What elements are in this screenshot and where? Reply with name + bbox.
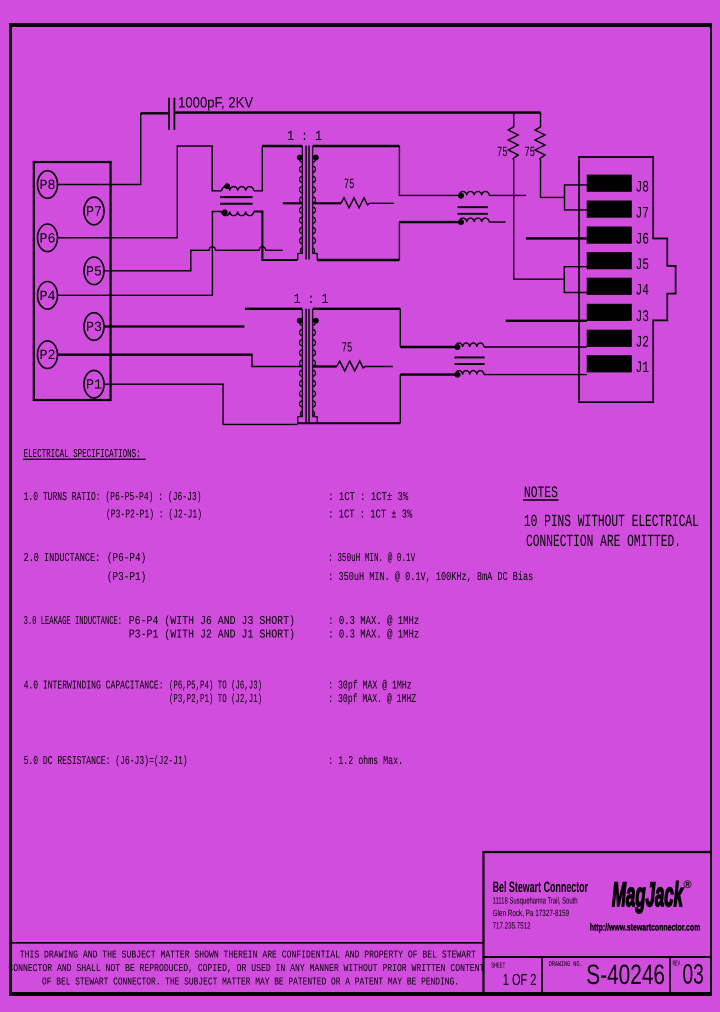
connector P box: [34, 162, 111, 400]
svg-text:1 OF 2: 1 OF 2: [503, 972, 537, 989]
resistor R3 75 vertical: [508, 113, 564, 280]
choke L3 top coil: [456, 343, 484, 347]
choke L2 top coil: [459, 191, 489, 195]
choke L3 top dot: [455, 344, 461, 350]
svg-text:REV.: REV.: [673, 961, 683, 969]
svg-text:: 30pf MAX. @ 1MHZ: : 30pf MAX. @ 1MHZ: [328, 692, 416, 706]
choke L1 top coil: [222, 187, 254, 191]
wire choke L1 bottom out to T1 primary bottom: [254, 212, 298, 261]
T1 secondary bottom wire: [317, 259, 399, 261]
bracket J5 J4: [564, 267, 586, 293]
svg-text:DRAWING NO.: DRAWING NO.: [549, 960, 583, 969]
T1 left winding: [298, 146, 303, 260]
wire capacitor to resistors top rail: [175, 111, 541, 113]
svg-text:MagJack: MagJack: [612, 876, 684, 914]
bracket J8 J7: [565, 185, 587, 210]
svg-text:J2: J2: [636, 334, 650, 352]
svg-text:(P3-P2-P1) : (J2-J1): (P3-P2-P1) : (J2-J1): [106, 508, 202, 522]
choke L2 core: [458, 207, 489, 214]
resistor R1 75 across T1 secondary: [313, 202, 341, 204]
svg-text:(P3-P1): (P3-P1): [107, 570, 146, 584]
svg-text:P5: P5: [86, 264, 102, 280]
svg-text:CONNECTOR AND SHALL NOT BE REP: CONNECTOR AND SHALL NOT BE REPRODUCED, C…: [8, 963, 484, 975]
wire P3 dead end: [104, 325, 245, 327]
resistor R2 75 across T2 secondary: [313, 365, 337, 367]
wire J3 dead end: [506, 320, 587, 322]
svg-text:75: 75: [342, 341, 353, 357]
svg-text:3.0 LEAKAGE INDUCTANCE:: 3.0 LEAKAGE INDUCTANCE:: [24, 614, 123, 628]
wire P6 up to choke L1 top: [58, 146, 222, 238]
T1 secondary top wire: [313, 145, 400, 147]
pin J7: [587, 201, 632, 218]
svg-text:717.235.7512: 717.235.7512: [493, 921, 531, 931]
svg-text:: 0.3 MAX. @ 1MHz: : 0.3 MAX. @ 1MHz: [328, 614, 419, 628]
svg-text:: 0.3 MAX. @ 1MHz: : 0.3 MAX. @ 1MHz: [328, 628, 419, 642]
svg-text:75: 75: [344, 177, 355, 193]
pin P8: [38, 171, 58, 199]
svg-text:J3: J3: [636, 308, 650, 326]
svg-text:75: 75: [525, 145, 536, 161]
T2 secondary bottom wire: [298, 422, 401, 424]
svg-text:03: 03: [683, 959, 704, 990]
T1 right winding: [313, 146, 318, 260]
T2 right dot: [313, 318, 319, 324]
choke L3 bottom coil: [456, 371, 484, 375]
pin P7: [84, 197, 104, 225]
frame border right: [710, 23, 712, 996]
choke L3 core: [455, 357, 485, 364]
disclaimer box top line: [10, 942, 484, 944]
wire P1 to T2 primary bottom: [104, 384, 298, 424]
svg-text:5.0 DC RESISTANCE: (J6-J3)=(J2: 5.0 DC RESISTANCE: (J6-J3)=(J2-J1): [24, 754, 188, 768]
transformer T1: [283, 129, 322, 260]
connector J box with notch: [579, 157, 676, 402]
choke L1 bottom coil: [222, 212, 254, 216]
wire P8 to capacitor: [58, 113, 141, 184]
choke L2 bottom coil: [459, 218, 489, 222]
transformer T2: [294, 292, 329, 423]
frame border left: [9, 23, 12, 996]
capacitor C1 plates: [169, 98, 174, 130]
svg-text:P1: P1: [86, 378, 102, 394]
svg-text:P6: P6: [40, 231, 56, 247]
choke L2 bottom dot: [458, 219, 464, 225]
svg-text:J1: J1: [636, 359, 650, 377]
svg-text:2.0 INDUCTANCE:: 2.0 INDUCTANCE:: [24, 551, 101, 565]
svg-text:J5: J5: [636, 256, 650, 274]
svg-text:(P6,P5,P4) TO (J6,J3): (P6,P5,P4) TO (J6,J3): [169, 679, 262, 693]
pin P3: [84, 313, 104, 341]
svg-text:: 350uH MIN. @ 0.1V: : 350uH MIN. @ 0.1V: [328, 551, 416, 565]
svg-text:J4: J4: [636, 282, 650, 300]
wire choke L3 bottom to J1: [484, 374, 587, 376]
svg-text:S-40246: S-40246: [586, 959, 665, 990]
wire P5 to T1 tap with hops: [104, 247, 283, 271]
svg-text:11118 Susquehanna Trail, South: 11118 Susquehanna Trail, South: [493, 896, 578, 906]
svg-text:Bel Stewart Connector: Bel Stewart Connector: [493, 879, 589, 896]
svg-text:1000pF, 2KV: 1000pF, 2KV: [178, 95, 253, 112]
svg-text:®: ®: [684, 879, 692, 891]
svg-text:(P3,P2,P1) TO (J2,J1): (P3,P2,P1) TO (J2,J1): [169, 692, 262, 706]
choke L1 core: [220, 197, 253, 204]
svg-text:Glen Rock, Pa 17327-8159: Glen Rock, Pa 17327-8159: [493, 908, 569, 918]
T1 core: [306, 146, 309, 260]
pin J5: [587, 252, 632, 269]
svg-text:J8: J8: [636, 179, 650, 197]
svg-text:SHEET: SHEET: [491, 962, 506, 971]
wire choke L2 bottom out dead end: [489, 221, 505, 223]
svg-text:OF BEL STEWART CONNECTOR. THE: OF BEL STEWART CONNECTOR. THE SUBJECT MA…: [42, 977, 459, 989]
T2 secondary top wire: [313, 308, 401, 310]
svg-text:http://www.stewartconnector.co: http://www.stewartconnector.com: [590, 923, 701, 934]
pin P2: [38, 341, 58, 369]
wire choke L3 top to J2: [484, 346, 587, 348]
pin P4: [38, 282, 58, 310]
pin J1: [587, 355, 632, 372]
wire J6 dead end: [526, 237, 587, 239]
svg-text:1 : 1: 1 : 1: [294, 292, 329, 308]
T1 left tap wire: [283, 202, 303, 204]
svg-text:P2: P2: [40, 348, 56, 364]
svg-text:CONNECTION ARE OMITTED.: CONNECTION ARE OMITTED.: [526, 533, 681, 552]
svg-text:P4: P4: [40, 289, 56, 305]
svg-text:75: 75: [497, 145, 508, 161]
svg-text:P8: P8: [40, 178, 56, 194]
T1 right dot: [313, 155, 319, 161]
svg-text:P3-P1 (WITH J2 AND J1 SHORT): P3-P1 (WITH J2 AND J1 SHORT): [129, 628, 295, 642]
svg-text:10 PINS WITHOUT ELECTRICAL: 10 PINS WITHOUT ELECTRICAL: [524, 513, 699, 532]
pin J4: [587, 278, 632, 295]
choke L1 top dot: [224, 183, 230, 189]
svg-text:1.0 TURNS RATIO: (P6-P5-P4) :: 1.0 TURNS RATIO: (P6-P5-P4) : (J6-J3): [24, 490, 202, 504]
title block outline: [484, 851, 713, 853]
svg-text:P7: P7: [86, 205, 102, 221]
T2 right winding: [313, 309, 318, 423]
pin J8: [587, 175, 632, 192]
pin P1: [84, 370, 104, 398]
pin J3: [587, 304, 632, 321]
svg-text:: 1CT : 1CT± 3%: : 1CT : 1CT± 3%: [328, 490, 409, 504]
svg-text:THIS DRAWING AND THE SUBJECT M: THIS DRAWING AND THE SUBJECT MATTER SHOW…: [20, 950, 476, 962]
pin J6: [587, 227, 632, 244]
wire P4 up to choke L1 bottom: [58, 212, 222, 296]
wire T2 primary top feed: [245, 308, 302, 310]
wire capacitor left lead: [141, 112, 168, 114]
svg-text:J7: J7: [636, 205, 650, 223]
svg-text:4.0 INTERWINDING CAPACITANCE:: 4.0 INTERWINDING CAPACITANCE:: [24, 679, 164, 693]
svg-text:: 30pf MAX @ 1MHz: : 30pf MAX @ 1MHz: [328, 679, 412, 693]
T2 core: [306, 309, 309, 423]
T2 left winding: [298, 309, 303, 423]
T1 left dot: [297, 155, 303, 161]
T2 left dot: [297, 318, 303, 324]
pin P5: [84, 257, 104, 285]
resistor R4 75 vertical: [535, 113, 565, 198]
svg-text:: 350uH MIN. @ 0.1V, 100KHz, 8: : 350uH MIN. @ 0.1V, 100KHz, 8mA DC Bias: [328, 570, 533, 584]
frame border bottom: [9, 992, 712, 996]
pin J2: [587, 330, 632, 347]
wire choke L1 top out to T1 primary top: [254, 146, 263, 191]
svg-text:(P6-P4): (P6-P4): [107, 551, 146, 565]
frame border top: [9, 23, 712, 27]
choke L2 top dot: [458, 193, 464, 199]
wire P2 to T2 tap: [58, 354, 253, 356]
choke L3 bottom dot: [455, 372, 461, 378]
wire choke L2 top out dead end: [489, 194, 526, 196]
svg-text:: 1CT : 1CT ± 3%: : 1CT : 1CT ± 3%: [328, 508, 413, 522]
svg-text:J6: J6: [636, 231, 650, 249]
svg-text:1 : 1: 1 : 1: [287, 129, 322, 145]
svg-text:P3: P3: [86, 320, 102, 336]
pin P6: [38, 224, 58, 252]
choke L1 bottom dot: [222, 209, 228, 215]
svg-text:P6-P4 (WITH J6 AND J3 SHORT): P6-P4 (WITH J6 AND J3 SHORT): [129, 614, 295, 628]
svg-text:: 1.2 ohms Max.: : 1.2 ohms Max.: [328, 754, 403, 768]
